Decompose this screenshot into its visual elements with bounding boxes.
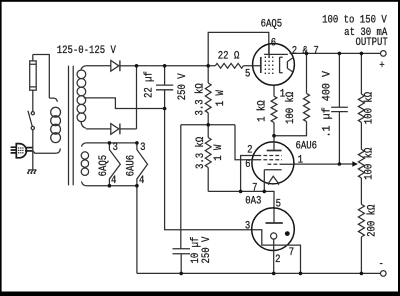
svg-text:6AU6: 6AU6	[126, 155, 138, 177]
svg-text:4: 4	[139, 175, 144, 187]
wire switch vertical	[32, 90, 34, 169]
svg-text:-: -	[379, 259, 384, 271]
fuse F1	[30, 55, 37, 91]
svg-text:.1 µf 400 V: .1 µf 400 V	[321, 70, 334, 137]
capacitor C1 22uf	[156, 66, 173, 90]
svg-text:3: 3	[140, 143, 145, 155]
output terminal +	[381, 51, 387, 57]
svg-text:100 to 150 V: 100 to 150 V	[322, 15, 387, 27]
capacitor C2 10uf	[173, 249, 191, 254]
node wire	[181, 124, 235, 126]
diode D2	[86, 124, 137, 135]
svg-text:6AQ5: 6AQ5	[99, 155, 111, 177]
svg-text:1 W: 1 W	[215, 89, 227, 106]
diode D1	[86, 60, 137, 71]
svg-text:250 V: 250 V	[201, 237, 213, 264]
capacitor C3 .1uf	[338, 53, 340, 107]
wire plug to primary bottom	[33, 151, 56, 153]
heater chevron 6AQ5	[109, 143, 120, 186]
6AU6 pin1 wire to wiper node	[294, 163, 339, 165]
svg-text:100 kΩ: 100 kΩ	[363, 92, 376, 124]
svg-text:2: 2	[247, 145, 252, 157]
svg-text:200 kΩ: 200 kΩ	[366, 205, 379, 237]
svg-text:0A3: 0A3	[245, 196, 261, 208]
AC plug P1	[11, 144, 33, 158]
svg-text:125-0-125 V: 125-0-125 V	[57, 46, 116, 58]
transformer T1 primary winding	[49, 98, 60, 153]
ground	[27, 170, 36, 174]
svg-text:6AU6: 6AU6	[295, 141, 317, 153]
heater winding leads	[86, 142, 137, 144]
svg-text:22 µf: 22 µf	[143, 71, 156, 98]
heater to bottom rail	[136, 186, 138, 274]
svg-text:3: 3	[245, 221, 250, 233]
svg-text:1 kΩ: 1 kΩ	[256, 100, 269, 122]
wire D2 up to junction	[136, 66, 138, 129]
svg-text:6: 6	[271, 38, 276, 50]
svg-text:3.3 kΩ: 3.3 kΩ	[194, 83, 207, 115]
tube V1 6AQ5	[253, 44, 295, 86]
svg-text:2: 2	[275, 254, 280, 266]
cathode node line to 0A3 plate	[208, 191, 274, 223]
svg-text:6: 6	[245, 159, 250, 171]
svg-text:+: +	[379, 60, 384, 72]
resistor 1k	[273, 85, 275, 96]
svg-text:3.3 kΩ: 3.3 kΩ	[194, 137, 207, 169]
transformer secondary winding 125-0-125	[77, 66, 165, 128]
resistor 200k	[358, 204, 364, 237]
svg-text:5: 5	[276, 199, 281, 211]
resistor 100k right top	[360, 53, 362, 94]
top B+ rail	[137, 65, 216, 67]
svg-text:4: 4	[111, 175, 116, 187]
svg-text:100 kΩ: 100 kΩ	[363, 148, 376, 180]
wire fuse top to primary	[33, 55, 50, 99]
resistor 100k left	[306, 53, 308, 93]
output terminal -	[381, 271, 387, 277]
svg-text:1: 1	[298, 155, 303, 167]
6AU6 pin2 wire	[241, 156, 254, 192]
svg-text:2 & 7: 2 & 7	[292, 46, 319, 58]
pot 100k	[358, 149, 364, 178]
svg-text:7: 7	[252, 183, 257, 195]
tube V2 6AU6	[252, 142, 294, 184]
resistor R 22ohm	[215, 63, 243, 68]
resistor 3.3k upper	[207, 66, 209, 83]
svg-text:10 µf: 10 µf	[189, 237, 202, 264]
resistor 3.3k lower	[205, 138, 211, 168]
wiper arrow	[339, 163, 352, 165]
output rail from 6AQ5 cathode	[290, 52, 381, 54]
svg-text:6AQ5: 6AQ5	[261, 19, 283, 31]
svg-text:250 V: 250 V	[177, 73, 189, 100]
tube V3 0A3	[252, 208, 295, 251]
bottom rail	[137, 272, 381, 274]
svg-text:1 W: 1 W	[213, 144, 225, 161]
switch S1	[31, 112, 34, 115]
transformer core	[68, 66, 70, 186]
heater chevron 6AU6	[137, 143, 148, 186]
svg-text:3: 3	[112, 143, 117, 155]
svg-text:5: 5	[245, 69, 250, 81]
svg-text:7: 7	[289, 248, 294, 260]
wire down to C2 10uf	[180, 125, 182, 249]
svg-text:100 kΩ: 100 kΩ	[284, 92, 297, 124]
6AQ5 screen wire over the top	[208, 32, 269, 65]
transformer heater winding	[81, 143, 88, 186]
svg-text:22 Ω: 22 Ω	[218, 51, 240, 63]
common line from C1 down to 0A3 pin3	[165, 90, 252, 230]
svg-text:OUTPUT: OUTPUT	[355, 38, 387, 50]
wire node to 6AU6 pin6	[235, 125, 252, 160]
